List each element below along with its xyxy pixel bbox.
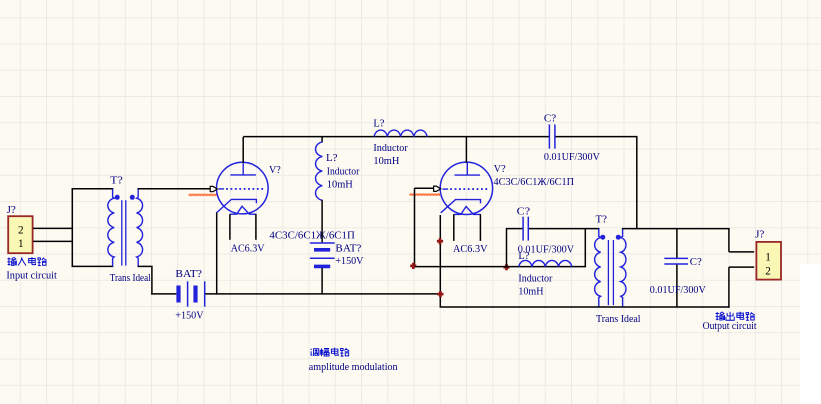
capacitor C4 plate bottom bbox=[664, 263, 688, 265]
wire tank top right of C3 bbox=[529, 228, 600, 230]
wire battery BAT2 bottom lead bbox=[321, 268, 323, 295]
sheet corner (workspace beyond schematic sheet) bbox=[800, 264, 821, 404]
svg-text:Input circuit: Input circuit bbox=[6, 269, 57, 281]
wire J1 pin2 stub bbox=[33, 227, 72, 229]
svg-text:1: 1 bbox=[765, 251, 771, 263]
connector J1 box bbox=[8, 216, 32, 253]
battery BAT1 plate 1 (short) bbox=[176, 286, 180, 303]
battery BAT2 plate 2 (short) bbox=[314, 248, 330, 252]
svg-text:Trans Ideal: Trans Ideal bbox=[596, 313, 641, 325]
wire J2 vertical top bbox=[728, 228, 730, 252]
tube V1 heater pin left bbox=[229, 214, 231, 240]
transformer T1 polarity dot right bbox=[130, 195, 135, 200]
svg-text:J?: J? bbox=[755, 229, 765, 240]
svg-text:BAT?: BAT? bbox=[175, 268, 202, 280]
svg-text:10mH: 10mH bbox=[518, 285, 543, 297]
tube V2 heater pin right bbox=[479, 214, 481, 241]
wire bottom rail right bbox=[440, 306, 730, 308]
wire T1 secondary top to grid arrow bbox=[138, 188, 211, 190]
wire inductor L1 top lead bbox=[321, 137, 323, 143]
svg-text:C?: C? bbox=[690, 256, 702, 268]
capacitor C1 plate left bbox=[548, 124, 550, 148]
connector J2 box bbox=[756, 242, 781, 280]
battery BAT1 plate 3 (short) bbox=[193, 286, 197, 303]
svg-text:0.01UF/300V: 0.01UF/300V bbox=[544, 151, 600, 163]
svg-text:V?: V? bbox=[494, 163, 506, 175]
transformer T1 primary winding bbox=[108, 189, 114, 267]
svg-text:C?: C? bbox=[517, 205, 531, 217]
transformer T2 primary winding bbox=[595, 229, 601, 307]
inductor L2 coil bbox=[374, 130, 427, 137]
label input circuit (chinese) bbox=[7, 257, 16, 265]
wire bottom rail to battery BAT1 bbox=[151, 293, 176, 295]
wire top rail left of C1 bbox=[243, 136, 549, 138]
transformer T2 core bbox=[608, 240, 613, 305]
wire down to bottom rail bbox=[151, 266, 153, 294]
svg-text:V?: V? bbox=[269, 164, 281, 176]
svg-text:+150V: +150V bbox=[175, 309, 203, 321]
svg-text:2: 2 bbox=[18, 224, 24, 236]
wire J1 pin1 stub bbox=[33, 240, 72, 242]
wire top rail right drop bbox=[636, 137, 638, 230]
svg-text:L?: L? bbox=[373, 118, 384, 130]
capacitor C1 plate right bbox=[554, 124, 556, 148]
inductor L1 coil bbox=[316, 142, 323, 200]
svg-text:10mH: 10mH bbox=[373, 155, 399, 167]
wire tube V2 plate to rail bbox=[465, 137, 467, 163]
wire input bottom horizontal bbox=[72, 265, 114, 267]
wire input left vertical bbox=[71, 188, 73, 267]
svg-text:+150V: +150V bbox=[335, 255, 363, 267]
wire C4 top lead bbox=[676, 229, 678, 258]
svg-text:amplitude modulation: amplitude modulation bbox=[309, 361, 398, 373]
wire bottom rail left bbox=[205, 293, 440, 295]
no-ERC cross on V2 cathode bbox=[437, 238, 443, 244]
battery BAT2 plate 1 (long) bbox=[310, 242, 335, 244]
wire J2 pin1 stub bbox=[729, 251, 754, 253]
capacitor C3 plate right bbox=[527, 217, 529, 241]
wire tube V2 grid horizontal bbox=[415, 187, 434, 189]
svg-text:L?: L? bbox=[326, 152, 338, 164]
wire inductor L1 to battery BAT2 bbox=[321, 200, 323, 243]
battery BAT2 plate 4 (short) bbox=[314, 265, 330, 269]
wire input top horizontal bbox=[72, 188, 114, 190]
svg-text:0.01UF/300V: 0.01UF/300V bbox=[650, 284, 706, 296]
svg-text:T?: T? bbox=[596, 214, 608, 226]
svg-text:1: 1 bbox=[18, 238, 24, 250]
transformer T2 polarity dot left bbox=[600, 235, 605, 240]
tube V1 heater pin right bbox=[255, 214, 257, 240]
no-ERC cross at tank corner bbox=[503, 264, 509, 270]
capacitor C3 plate left bbox=[522, 217, 524, 241]
wire top rail right of C1 bbox=[555, 136, 637, 138]
svg-text:AC6.3V: AC6.3V bbox=[231, 243, 265, 255]
no-ERC cross at bottom rail junction bbox=[437, 291, 443, 297]
wire tube V1 cathode pin bbox=[216, 212, 218, 294]
transformer T1 polarity dot left bbox=[115, 195, 120, 200]
inductor L3 coil bbox=[519, 260, 572, 266]
wire horizontal to tank bbox=[415, 266, 586, 268]
tube V1 envelope and electrodes bbox=[217, 162, 269, 214]
transformer T1 core bbox=[122, 200, 126, 265]
wire T2 secondary top to J2 bbox=[622, 228, 730, 230]
svg-text:Output circuit: Output circuit bbox=[703, 320, 757, 332]
tube V1 grid arrow bbox=[210, 186, 217, 192]
svg-text:J?: J? bbox=[7, 205, 17, 216]
transformer T2 secondary winding bbox=[621, 229, 626, 307]
tube V2 heater pin left bbox=[453, 214, 455, 241]
wire C4 bottom lead bbox=[676, 264, 678, 307]
no-ERC cross at grid return corner bbox=[410, 263, 416, 269]
no-ERC squiggle under tube V2 grid wire bbox=[410, 194, 441, 196]
wire T1 secondary bottom bbox=[138, 265, 153, 267]
svg-text:Trans Ideal: Trans Ideal bbox=[110, 272, 151, 284]
tube V2 envelope and electrodes bbox=[440, 162, 492, 214]
wire tank right vertical bbox=[584, 229, 586, 268]
tube V2 grid arrow bbox=[434, 186, 441, 192]
wire tube V1 plate to rail bbox=[242, 137, 244, 163]
svg-text:BAT?: BAT? bbox=[335, 243, 361, 255]
capacitor C4 plate top bbox=[664, 257, 688, 259]
transformer T1 secondary winding bbox=[137, 189, 143, 267]
svg-text:C?: C? bbox=[544, 112, 557, 124]
svg-text:Inductor: Inductor bbox=[373, 142, 408, 154]
svg-text:10mH: 10mH bbox=[327, 179, 353, 191]
svg-text:4C3C/6C1Ж/6С1П: 4C3C/6C1Ж/6С1П bbox=[269, 230, 355, 242]
no-ERC squiggle under tube V1 grid wire bbox=[189, 194, 218, 196]
wire J2 pin2 stub bbox=[729, 266, 754, 268]
battery BAT2 plate 3 (long) bbox=[310, 257, 335, 259]
svg-text:T?: T? bbox=[110, 175, 123, 187]
wire grid return vertical bbox=[414, 188, 416, 267]
title amplitude modulation (chinese) bbox=[310, 349, 318, 356]
transformer T2 polarity dot right bbox=[616, 235, 621, 240]
svg-text:Inductor: Inductor bbox=[327, 165, 360, 177]
wire tube V2 cathode pin bbox=[439, 215, 441, 307]
label output circuit (chinese) bbox=[716, 312, 725, 320]
svg-text:AC6.3V: AC6.3V bbox=[453, 243, 488, 255]
wire J2 vertical bottom bbox=[728, 267, 730, 308]
wire tank top left of C3 bbox=[507, 228, 523, 230]
battery BAT1 plate 4 (long) bbox=[204, 281, 206, 306]
wire tank left vertical bbox=[506, 228, 508, 267]
svg-text:Inductor: Inductor bbox=[518, 272, 552, 284]
battery BAT1 plate 2 (long) bbox=[187, 281, 189, 306]
svg-text:4C3C/6C1Ж/6С1П: 4C3C/6C1Ж/6С1П bbox=[494, 176, 575, 188]
svg-text:2: 2 bbox=[765, 266, 771, 278]
